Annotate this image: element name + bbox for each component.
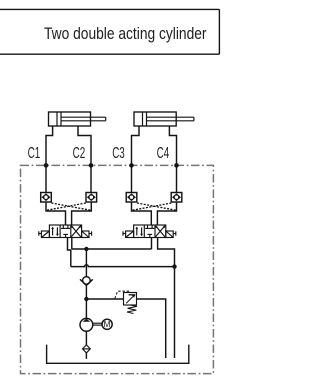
- directional valve U2: [134, 225, 166, 238]
- node T junction dot: [172, 264, 176, 268]
- svg-text:C2: C2: [73, 145, 86, 162]
- cylinder CYL2 body: [134, 112, 176, 126]
- pilot check valve V3 box: [126, 193, 137, 203]
- wire CYL2 port A to node C3: [132, 126, 140, 193]
- title block right border: [218, 9, 220, 54]
- cylinder CYL1 piston: [57, 112, 61, 126]
- directional valve U1: [49, 225, 81, 238]
- relief valve spring: [127, 305, 137, 314]
- motor M1: [102, 319, 112, 329]
- wire U1 P port to pressure manifold: [71, 238, 73, 250]
- motor shaft coupling: [93, 323, 102, 325]
- wire T manifold down to tank: [174, 267, 176, 358]
- pilot line V4 cross: [132, 203, 171, 210]
- solenoid U2 left: [123, 231, 134, 238]
- wire CYL2 port B to node C4: [169, 126, 176, 193]
- wire V2 to valve U1 port B: [72, 202, 92, 225]
- check valve CV1: [80, 277, 93, 286]
- svg-text:M: M: [104, 320, 111, 329]
- wire CYL1 port B to node C2: [78, 126, 91, 193]
- solenoid U1 right: [82, 231, 92, 238]
- node C3 junction dot: [129, 163, 134, 168]
- node P junction dot: [84, 247, 88, 251]
- title block top border: [0, 8, 219, 10]
- wire pressure manifold P line: [72, 248, 152, 250]
- wire U2 P port stub: [151, 238, 153, 250]
- relief valve RV1: [124, 293, 137, 306]
- node C4 junction dot: [174, 163, 179, 168]
- wire CYL1 port A to node C1: [46, 126, 53, 193]
- tank T1: [47, 345, 189, 364]
- pilot line V1 cross: [52, 203, 91, 210]
- title block bottom border: [0, 53, 219, 55]
- svg-text:Two double acting cylinder: Two double acting cylinder: [44, 25, 207, 43]
- wire V3 to valve U2 port A: [132, 202, 152, 225]
- wire pump suction: [85, 331, 87, 345]
- pump P1: [80, 318, 93, 331]
- svg-text:C1: C1: [28, 145, 41, 162]
- wire V1 to valve U1 port A: [46, 202, 66, 225]
- cylinder CYL2 piston: [143, 112, 147, 126]
- wire relief branch: [86, 298, 123, 300]
- solenoid U2 right: [166, 231, 176, 238]
- cylinder CYL1 rod: [61, 117, 106, 121]
- pilot line V2 cross: [46, 203, 85, 210]
- filter F1: [83, 345, 91, 353]
- node C2 junction dot: [89, 163, 94, 168]
- pilot line V3 cross: [137, 203, 176, 210]
- pilot check valve V4 box: [171, 193, 182, 203]
- wire P node down to check valve: [85, 249, 87, 277]
- cylinder CYL2 rod: [147, 117, 194, 121]
- svg-text:C3: C3: [112, 145, 125, 162]
- pilot check valve V1 box: [41, 193, 52, 203]
- wire check valve to pump: [85, 285, 87, 318]
- pilot check valve V2 box: [86, 193, 97, 203]
- power unit boundary frame (dash-dot): [21, 165, 214, 373]
- wire U1 T port to tank manifold: [68, 238, 71, 267]
- wire tank manifold T line with hop: [71, 265, 175, 267]
- wire V4 to valve U2 port B: [157, 202, 176, 225]
- node C1 junction dot: [44, 163, 49, 168]
- cylinder CYL1 body: [49, 112, 91, 126]
- solenoid U1 left: [39, 231, 50, 238]
- svg-text:C4: C4: [157, 145, 170, 162]
- wire filter to tank: [85, 353, 87, 359]
- relief valve pilot dashed line: [115, 291, 130, 298]
- wire U2 T port to tank manifold: [158, 238, 175, 267]
- wire relief valve outlet to tank: [137, 299, 166, 358]
- node relief branch dot: [84, 297, 88, 301]
